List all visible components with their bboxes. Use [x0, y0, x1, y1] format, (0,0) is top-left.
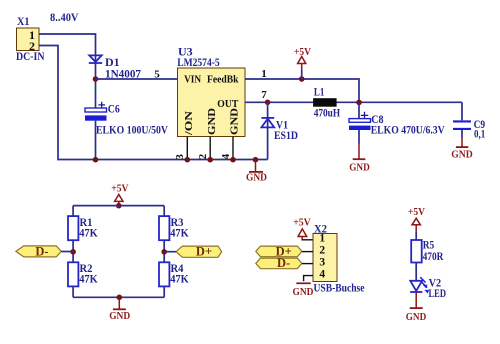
svg-text:47K: 47K [79, 226, 98, 240]
net flag D- X2 [256, 256, 313, 270]
diode D1 [89, 55, 141, 81]
connector X1 [16, 14, 45, 63]
wire X1 pin1 to D1/C6 column [39, 34, 96, 160]
wire +5V to R5 [415, 231, 417, 240]
svg-text:2: 2 [197, 153, 209, 159]
svg-text:1: 1 [319, 233, 325, 245]
svg-text:ES1D: ES1D [274, 128, 298, 142]
svg-text:2: 2 [319, 245, 325, 257]
svg-text:47K: 47K [170, 272, 189, 286]
pin 4 stub of U3 [220, 137, 233, 160]
connector X2 [313, 222, 365, 295]
svg-text:ELKO 470U/6.3V: ELKO 470U/6.3V [371, 123, 445, 137]
wire VIN net to U3 pin 5 [96, 69, 178, 81]
ground symbol under bus [246, 160, 267, 184]
svg-text:/ON: /ON [183, 111, 195, 136]
svg-text:GND: GND [293, 286, 314, 298]
svg-text:VIN: VIN [184, 74, 201, 86]
ground symbol resistor network [109, 295, 130, 323]
svg-text:C6: C6 [108, 102, 120, 116]
wire FeedBk net pin 1 [245, 68, 359, 102]
svg-text:+5V: +5V [111, 183, 128, 195]
svg-text:7: 7 [261, 89, 267, 101]
wire X1 pin2 to ground bus [39, 46, 268, 160]
svg-text:FeedBk: FeedBk [207, 74, 239, 86]
svg-text:X1: X1 [17, 14, 30, 28]
svg-text:L1: L1 [314, 84, 325, 98]
wire X2 pin 4 to ground [304, 276, 313, 282]
ground symbol X2 [293, 283, 314, 298]
ground symbol under C8 [349, 144, 370, 174]
resistor R2 [68, 261, 98, 286]
svg-text:D+: D+ [196, 245, 212, 259]
power +5V symbol resistor network [111, 183, 128, 209]
junction U3 pin 3 to ground bus [185, 157, 191, 163]
svg-text:47K: 47K [79, 272, 98, 286]
net flag D+ X2 [256, 245, 313, 259]
wire R5 to LED [415, 263, 417, 281]
svg-text:470uH: 470uH [314, 105, 341, 119]
junction V1 on OUT net [265, 100, 271, 106]
capacitor C9 [453, 102, 485, 140]
wire +5V to X2 pin 1 [302, 239, 313, 241]
junction U3 pin 4 to ground bus [230, 157, 236, 163]
svg-text:3: 3 [174, 154, 186, 160]
svg-text:1: 1 [261, 68, 267, 80]
svg-text:4: 4 [319, 269, 325, 281]
svg-text:USB-Buchse: USB-Buchse [314, 280, 366, 294]
svg-text:47K: 47K [170, 226, 189, 240]
svg-text:GND: GND [246, 172, 267, 184]
wire resistor network rails [73, 206, 164, 298]
resistor R3 [159, 215, 189, 240]
svg-text:8..40V: 8..40V [50, 10, 79, 24]
svg-text:+5V: +5V [294, 46, 311, 58]
svg-text:GND: GND [229, 108, 241, 135]
net flag D+ right [164, 245, 222, 259]
capacitor C6 [85, 102, 168, 137]
svg-text:LM2574-5: LM2574-5 [177, 55, 220, 69]
pin 2 stub of U3 [197, 137, 210, 160]
svg-text:LED: LED [429, 286, 447, 300]
junction node D- divider [70, 249, 76, 255]
capacitor C8 [349, 102, 445, 143]
wire OUT net pin 7 [245, 89, 462, 102]
svg-text:D-: D- [35, 244, 48, 258]
svg-text:470R: 470R [423, 249, 444, 263]
power +5V symbol LED branch [408, 206, 425, 231]
junction ground symbol to ground bus [253, 157, 259, 163]
svg-text:0,1: 0,1 [474, 127, 485, 141]
svg-text:GND: GND [406, 311, 427, 323]
IC U3 LM2574-5 buck regulator [177, 45, 245, 137]
svg-text:4: 4 [220, 153, 232, 159]
ground symbol under C9 [451, 130, 473, 161]
power +5V symbol X2 [293, 216, 311, 240]
svg-text:GND: GND [206, 108, 218, 135]
resistor R5 [411, 238, 443, 264]
pin 3 stub of U3 [174, 137, 187, 160]
junction U3 pin 2 to ground bus [207, 157, 213, 163]
svg-text:+5V: +5V [293, 216, 311, 228]
ground symbol LED branch [406, 308, 427, 323]
svg-text:+5V: +5V [408, 206, 425, 218]
junction C6 to ground bus [93, 157, 99, 163]
svg-text:5: 5 [154, 69, 160, 81]
net label 8..40V [50, 10, 79, 24]
resistor R4 [159, 261, 189, 286]
svg-text:3: 3 [319, 257, 325, 269]
svg-text:GND: GND [451, 148, 473, 160]
svg-text:ELKO 100U/50V: ELKO 100U/50V [96, 122, 168, 136]
svg-text:GND: GND [109, 310, 130, 322]
node VIN junction [93, 76, 99, 82]
svg-text:D-: D- [277, 256, 290, 270]
svg-text:GND: GND [349, 162, 370, 174]
junction +5V node L1/C8/FeedBk [356, 100, 362, 106]
LED V2 [410, 276, 446, 301]
inductor L1 [313, 84, 341, 119]
wire LED to ground [415, 292, 417, 308]
resistor R1 [68, 215, 98, 240]
junction node D+ divider [161, 249, 167, 255]
diode V1 [261, 102, 298, 159]
net flag D- left [16, 244, 73, 258]
power +5V symbol top [294, 46, 311, 82]
svg-text:DC-IN: DC-IN [16, 49, 45, 63]
